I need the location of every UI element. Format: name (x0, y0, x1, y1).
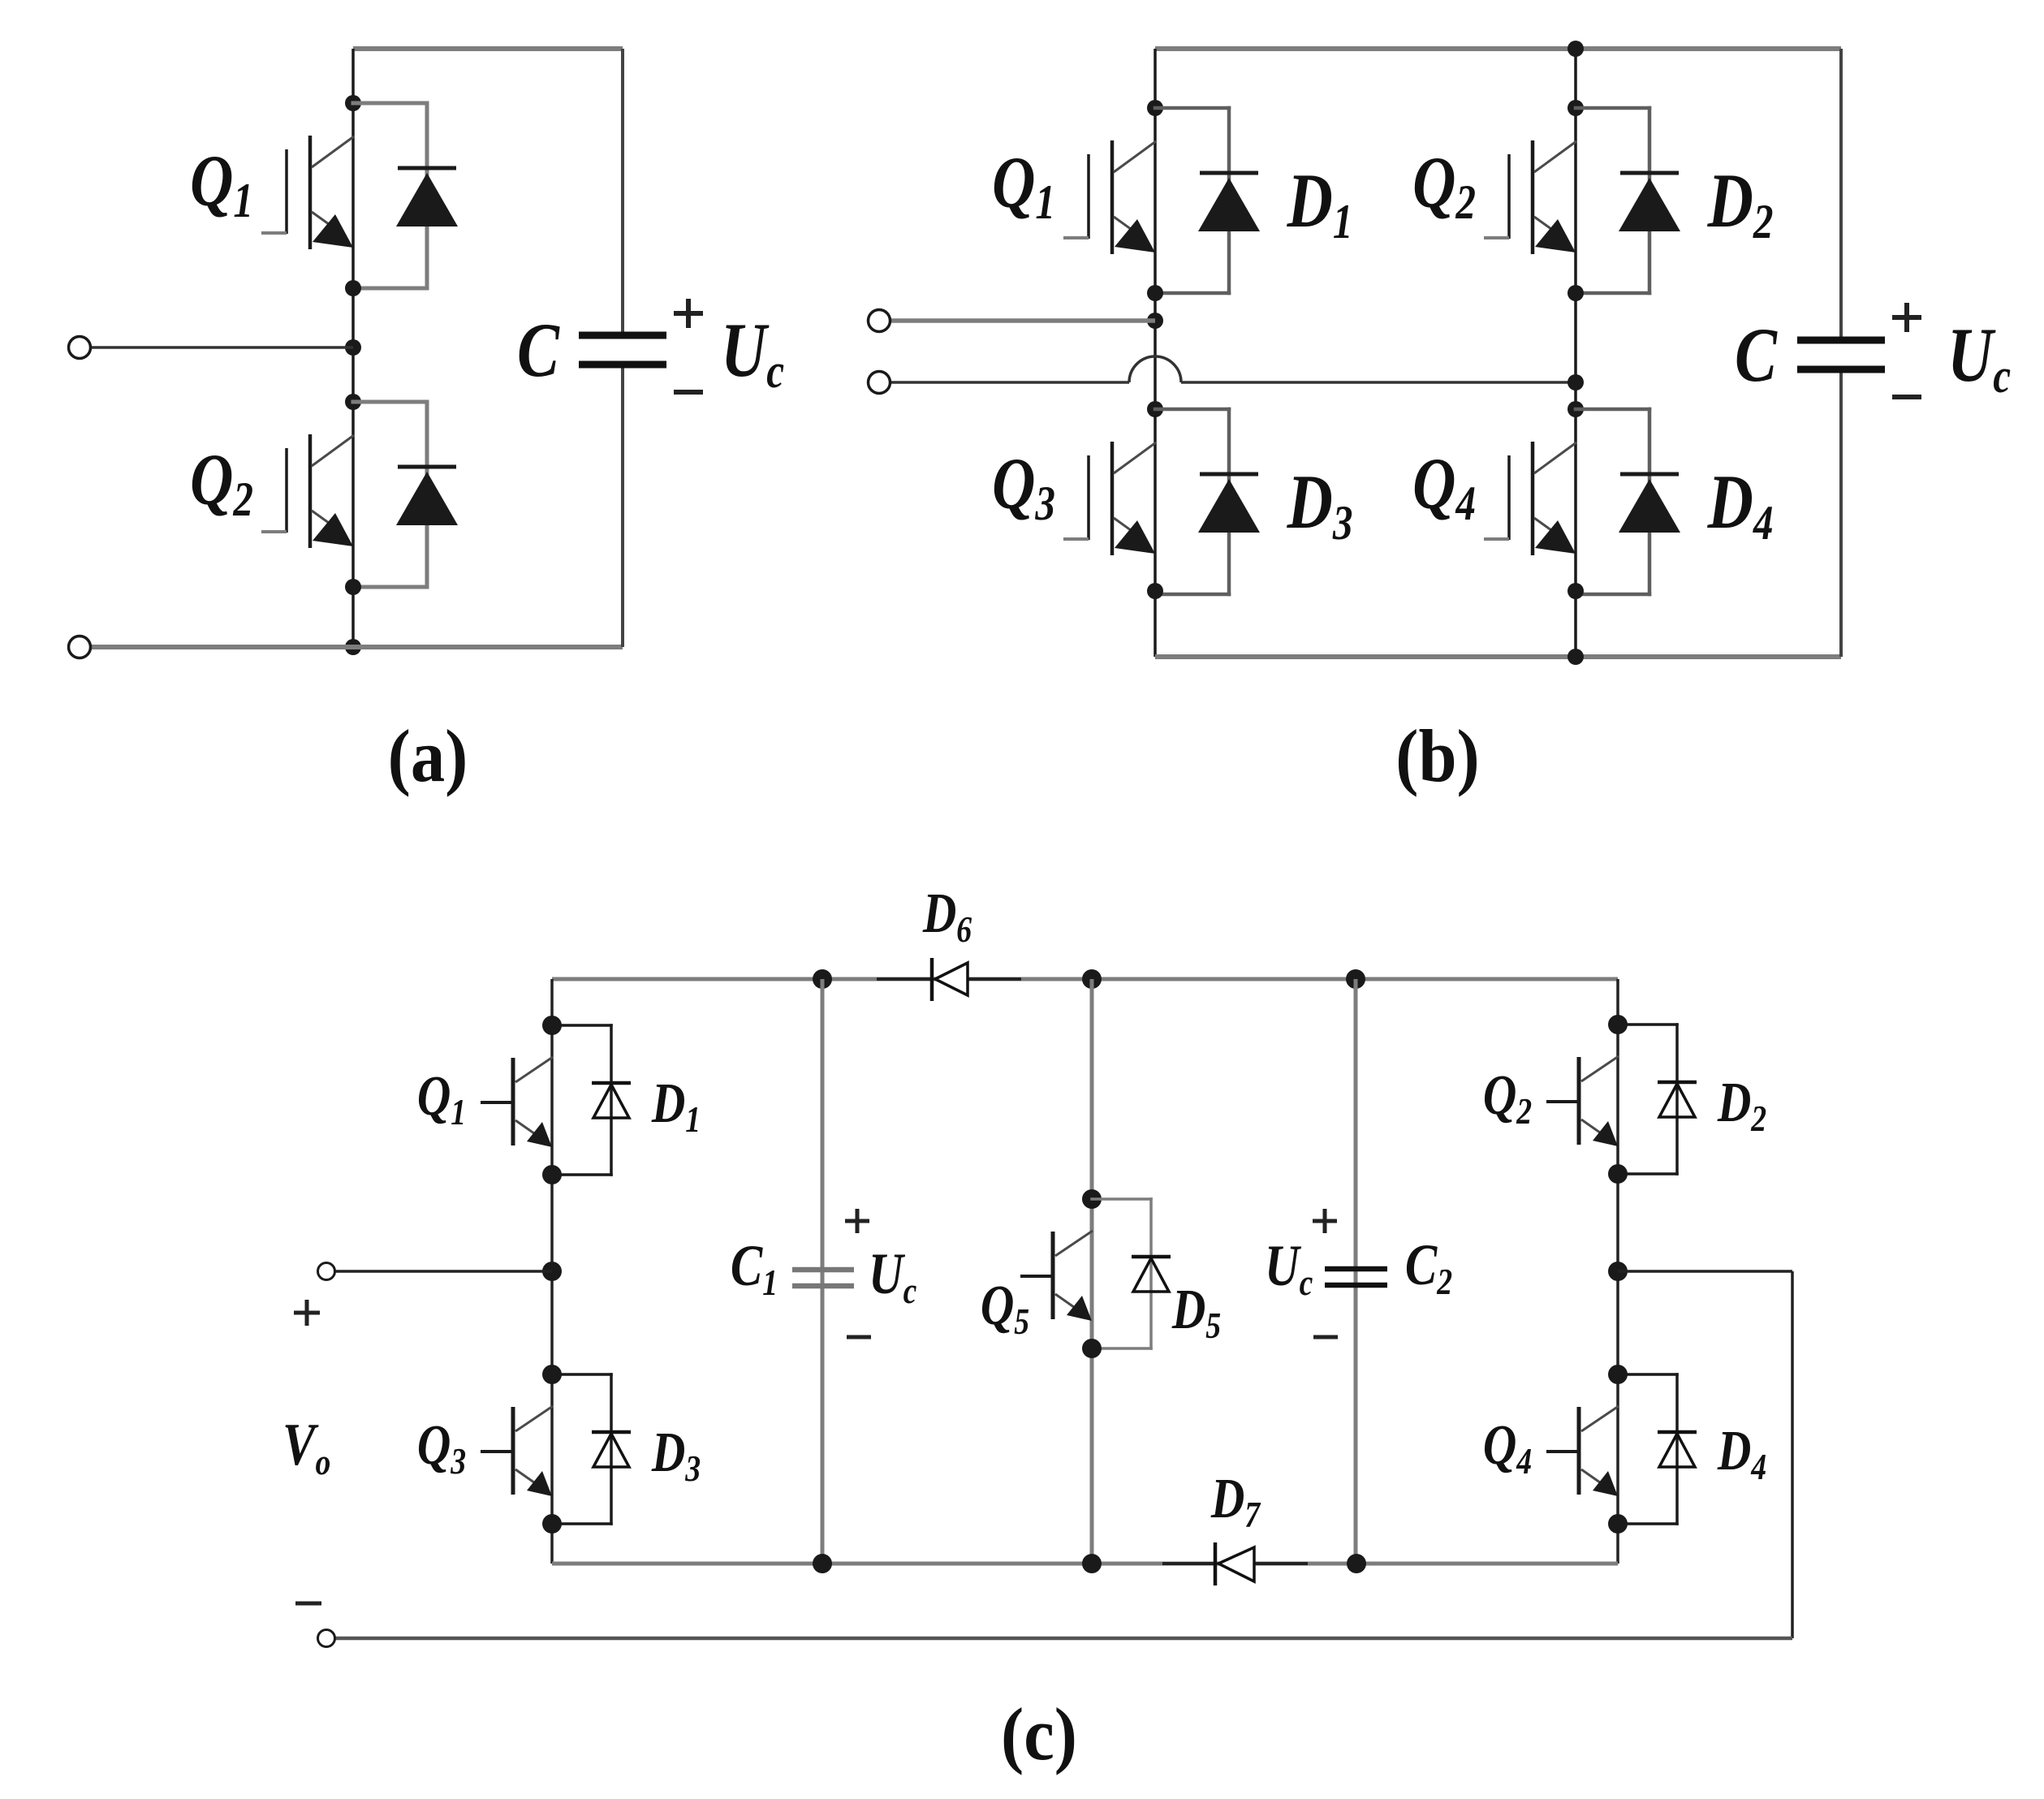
transistor Q3 (c) (481, 1406, 553, 1496)
label Q1 (b) (992, 142, 1055, 229)
diode D3 (c) (552, 1374, 631, 1524)
node c top C2 (1346, 969, 1365, 989)
node Q4c emitter (1608, 1514, 1628, 1534)
label Q2 (b) (1412, 142, 1476, 229)
node Q1c emitter (542, 1165, 562, 1184)
node Q2c emitter (1608, 1164, 1628, 1184)
terminal c return (318, 1630, 335, 1647)
terminal b lower (869, 372, 890, 394)
wire c right link (1618, 1271, 1792, 1638)
label Q4 (b) (1412, 443, 1476, 530)
wire c return rail (335, 1637, 1792, 1641)
node c bottom Q5 (1082, 1554, 1102, 1573)
capacitor C1 (792, 1270, 854, 1286)
node Q4c collector (1608, 1365, 1628, 1384)
terminal b upper (869, 310, 890, 332)
caption (a) (388, 715, 468, 798)
transistor Q4 (c) (1546, 1406, 1619, 1496)
plus sign Vo (294, 1300, 320, 1326)
wire a capacitor branch (621, 49, 624, 647)
transistor Q1 (b) (1063, 140, 1156, 254)
node Q3c collector (542, 1365, 562, 1384)
node Q4b collector (1567, 401, 1584, 417)
node Q1a collector (345, 95, 361, 111)
minus sign (a) (674, 390, 703, 395)
node Q2a emitter (345, 579, 361, 595)
label C (b) (1735, 313, 1778, 398)
label D7 (1210, 1467, 1261, 1536)
diode D4 (b) (1576, 409, 1680, 594)
transistor Q2 (b) (1484, 140, 1576, 254)
node a-output upper (345, 339, 361, 356)
minus sign C2 (1313, 1335, 1338, 1340)
label D4 (c) (1717, 1419, 1766, 1488)
node c top C1 (813, 969, 832, 989)
label Q3 (c) (417, 1413, 466, 1482)
label Q2 (a) (190, 439, 253, 526)
node c input (542, 1262, 562, 1281)
minus sign (b) (1892, 395, 1921, 399)
wire b capacitor branch (1839, 49, 1843, 657)
wire c input terminal (335, 1270, 552, 1273)
circuit (b) right branch wire (1574, 49, 1577, 657)
circuit (b) left branch wire (1154, 49, 1157, 657)
node b right mid (1567, 374, 1584, 390)
diode D6 (932, 958, 968, 1001)
label Uc at C2 (1265, 1234, 1313, 1304)
minus sign C1 (847, 1335, 871, 1340)
node b top rail (1567, 41, 1584, 57)
wire c bottom rail (552, 1562, 1618, 1566)
label D6 (922, 882, 972, 951)
wire c C1 branch (821, 979, 825, 1564)
transistor Q3 (b) (1063, 442, 1156, 555)
label Q3 (b) (992, 443, 1055, 530)
svg-text:C: C (517, 308, 560, 393)
diode D1 (b) (1155, 108, 1260, 293)
node Q2b emitter (1567, 285, 1584, 301)
circuit (a) top rail wire (353, 46, 623, 51)
circuit (c) right branch wire (1616, 979, 1619, 1564)
node c bottom C1 (813, 1554, 832, 1573)
label D2 (b) (1707, 158, 1774, 248)
wire c C2 branch (1354, 979, 1358, 1564)
diode across Q2 (a) (353, 402, 458, 587)
node Q4b emitter (1567, 583, 1584, 599)
transistor Q2 (c) (1546, 1056, 1619, 1146)
plus sign (a) (674, 299, 703, 328)
node Q3b emitter (1147, 583, 1163, 599)
capacitor C (b) (1797, 340, 1885, 369)
plus sign C1 (845, 1209, 869, 1233)
transistor Q5 (1020, 1231, 1093, 1321)
diode D4 (c) (1618, 1374, 1697, 1524)
wire c Q5 branch (1090, 979, 1094, 1564)
svg-text:(a): (a) (388, 715, 468, 798)
diode D5 (1092, 1199, 1171, 1348)
label Uc (a) (721, 308, 784, 398)
wire b bottom rail (1155, 654, 1841, 659)
terminal a lower (69, 636, 91, 658)
svg-text:(c): (c) (1001, 1693, 1077, 1776)
transistor Q2 (a) (261, 434, 354, 548)
diode D2 (c) (1618, 1025, 1697, 1174)
label C (a) (517, 308, 560, 393)
label Q2 (c) (1483, 1063, 1532, 1132)
node c top Q5 (1082, 969, 1102, 989)
minus sign Vo (295, 1602, 321, 1606)
circuit (c) top rail wire (552, 977, 1618, 981)
circuit (a) half-bridge branch wire (351, 49, 355, 647)
wire a bottom rail (91, 645, 623, 649)
wire a upper terminal (91, 346, 353, 349)
node Q2a collector (345, 394, 361, 410)
transistor Q1 (a) (261, 136, 354, 249)
label D3 (b) (1287, 459, 1353, 550)
node Q5 collector (1082, 1189, 1102, 1209)
label D2 (c) (1717, 1071, 1766, 1140)
label C1 (731, 1234, 778, 1304)
label D4 (b) (1707, 459, 1774, 550)
capacitor C2 (1325, 1269, 1387, 1285)
plus sign (b) (1892, 303, 1921, 332)
node b left mid (1147, 313, 1163, 329)
label Vo (282, 1411, 330, 1483)
transistor Q1 (c) (481, 1057, 553, 1147)
caption (c) (1001, 1693, 1077, 1776)
label C2 (1405, 1233, 1452, 1303)
diode D7 (1215, 1542, 1254, 1585)
terminal c input (318, 1263, 335, 1280)
label Q1 (c) (417, 1064, 466, 1133)
label Uc (b) (1947, 313, 2011, 403)
label Q1 (a) (190, 140, 253, 227)
diode D3 (b) (1155, 409, 1260, 594)
node Q2b collector (1567, 100, 1584, 116)
node b bottom rail (1567, 649, 1584, 665)
terminal a upper (69, 337, 91, 359)
circuit (b) top rail wire (1155, 46, 1841, 51)
label Q4 (c) (1483, 1413, 1532, 1482)
node Q2c collector (1608, 1015, 1628, 1034)
label Uc at C1 (869, 1242, 917, 1312)
capacitor C (a) (579, 335, 666, 365)
node Q1b collector (1147, 100, 1163, 116)
node Q1c collector (542, 1016, 562, 1035)
label D1 (b) (1287, 158, 1353, 248)
plus sign C2 (1313, 1209, 1337, 1233)
circuit (c) left branch wire (550, 979, 554, 1564)
label D3 (c) (651, 1421, 701, 1490)
wire b upper terminal (890, 318, 1155, 323)
svg-text:C: C (1735, 313, 1778, 398)
wire b lower terminal with hop (890, 356, 1576, 382)
node Q5 emitter (1082, 1339, 1102, 1358)
diode across Q1 (a) (353, 103, 458, 288)
svg-text:(b): (b) (1395, 715, 1479, 798)
label D1 (c) (651, 1072, 701, 1141)
node c bottom C2 (1347, 1554, 1366, 1573)
label Q5 (981, 1274, 1029, 1343)
node Q3b collector (1147, 401, 1163, 417)
label D5 (1171, 1278, 1221, 1347)
diode D2 (b) (1576, 108, 1680, 293)
node Q1a emitter (345, 280, 361, 296)
node Q3c emitter (542, 1514, 562, 1534)
diode D1 (c) (552, 1025, 631, 1175)
transistor Q4 (b) (1484, 442, 1576, 555)
node a bottom (345, 639, 361, 655)
caption (b) (1395, 715, 1479, 798)
node Q1b emitter (1147, 285, 1163, 301)
node c right mid (1608, 1262, 1628, 1281)
